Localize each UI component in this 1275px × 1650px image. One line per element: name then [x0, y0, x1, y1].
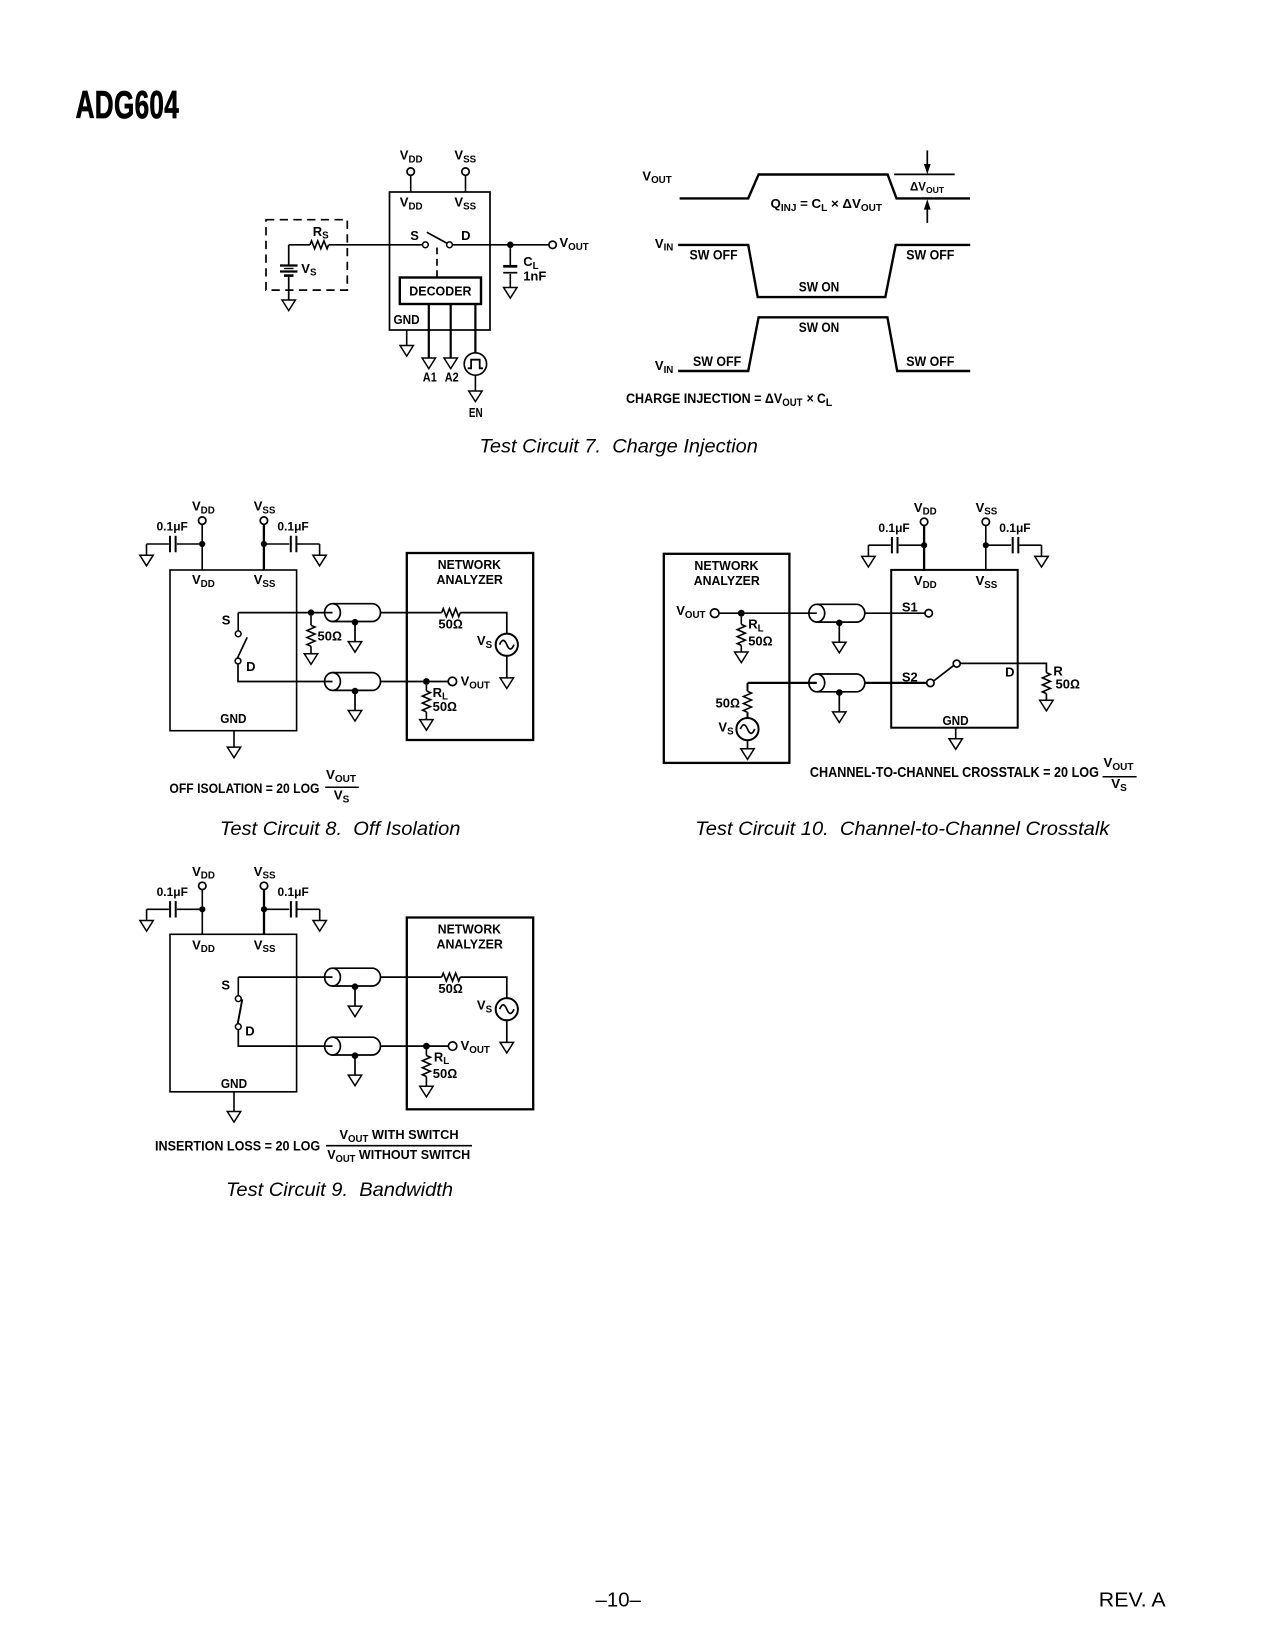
svg-text:S: S — [222, 613, 231, 628]
svg-text:A2: A2 — [445, 369, 459, 384]
svg-text:ANALYZER: ANALYZER — [694, 574, 760, 588]
svg-text:ΔVOUT: ΔVOUT — [910, 181, 945, 195]
svg-text:NETWORK: NETWORK — [694, 559, 758, 573]
svg-text:50Ω: 50Ω — [1056, 677, 1080, 692]
svg-text:SW OFF: SW OFF — [906, 248, 954, 263]
svg-text:NETWORK: NETWORK — [438, 558, 501, 572]
svg-text:VOUT WITH SWITCH: VOUT WITH SWITCH — [340, 1127, 459, 1145]
svg-text:VOUT: VOUT — [676, 603, 705, 621]
svg-text:VIN: VIN — [655, 236, 673, 254]
svg-text:VOUT WITHOUT SWITCH: VOUT WITHOUT SWITCH — [327, 1147, 470, 1165]
svg-text:× C: × C — [807, 391, 826, 407]
svg-text:L: L — [826, 397, 833, 409]
svg-text:RS: RS — [313, 224, 329, 242]
svg-text:S: S — [410, 228, 419, 243]
svg-text:INSERTION LOSS = 20 LOG: INSERTION LOSS = 20 LOG — [155, 1138, 320, 1154]
svg-text:VS: VS — [718, 720, 734, 738]
svg-text:ADG604: ADG604 — [76, 83, 180, 126]
svg-text:NETWORK: NETWORK — [438, 923, 501, 937]
svg-text:ANALYZER: ANALYZER — [437, 938, 503, 952]
svg-text:EN: EN — [469, 405, 483, 420]
svg-text:GND: GND — [394, 312, 420, 327]
svg-text:VOUT: VOUT — [642, 168, 671, 186]
svg-text:Test Circuit 9. Bandwidth: Test Circuit 9. Bandwidth — [226, 1179, 453, 1201]
svg-text:D: D — [461, 228, 470, 243]
svg-text:VOUT: VOUT — [326, 767, 356, 785]
svg-text:Test Circuit 8. Off Isolation: Test Circuit 8. Off Isolation — [220, 818, 461, 840]
svg-text:ANALYZER: ANALYZER — [437, 573, 503, 587]
svg-text:VS: VS — [301, 261, 317, 279]
svg-text:50Ω: 50Ω — [318, 629, 342, 644]
svg-text:GND: GND — [943, 713, 969, 728]
svg-text:VDD: VDD — [400, 195, 423, 213]
svg-text:CHARGE INJECTION = ΔV: CHARGE INJECTION = ΔV — [626, 391, 783, 407]
svg-text:S: S — [221, 978, 230, 993]
svg-text:VDD: VDD — [400, 148, 423, 166]
svg-text:50Ω: 50Ω — [438, 981, 462, 996]
svg-text:VS: VS — [334, 788, 350, 806]
svg-text:50Ω: 50Ω — [438, 617, 462, 632]
svg-text:SW OFF: SW OFF — [690, 248, 738, 263]
svg-text:VOUT: VOUT — [560, 235, 589, 253]
svg-text:REV. A: REV. A — [1099, 1590, 1166, 1612]
svg-text:RL: RL — [748, 617, 763, 635]
svg-text:VOUT: VOUT — [1104, 755, 1134, 773]
svg-text:VS: VS — [477, 633, 493, 651]
svg-text:D: D — [245, 1023, 254, 1038]
svg-text:S2: S2 — [902, 670, 918, 685]
svg-text:VOUT: VOUT — [461, 674, 490, 692]
svg-text:D: D — [246, 659, 255, 674]
svg-text:1nF: 1nF — [523, 269, 546, 284]
svg-text:S1: S1 — [902, 600, 918, 615]
svg-text:OFF ISOLATION = 20 LOG: OFF ISOLATION = 20 LOG — [169, 781, 319, 797]
svg-text:Test Circuit 7. Charge Inject: Test Circuit 7. Charge Injection — [480, 435, 758, 457]
svg-text:DECODER: DECODER — [409, 283, 472, 298]
svg-text:50Ω: 50Ω — [433, 1066, 457, 1081]
svg-text:GND: GND — [220, 711, 246, 726]
svg-text:D: D — [1005, 665, 1014, 680]
svg-text:VIN: VIN — [655, 358, 673, 376]
svg-text:Test Circuit 10. Channel-to-C: Test Circuit 10. Channel-to-Channel Cros… — [695, 818, 1110, 840]
svg-text:SW OFF: SW OFF — [693, 354, 741, 369]
svg-text:OUT: OUT — [782, 397, 803, 409]
svg-text:VOUT: VOUT — [461, 1038, 490, 1056]
svg-text:CHANNEL-TO-CHANNEL CROSSTALK =: CHANNEL-TO-CHANNEL CROSSTALK = 20 LOG — [810, 765, 1099, 781]
svg-text:–10–: –10– — [596, 1590, 642, 1612]
svg-text:VSS: VSS — [454, 195, 476, 213]
svg-text:50Ω: 50Ω — [748, 633, 772, 648]
svg-text:VS: VS — [477, 998, 493, 1016]
svg-text:RL: RL — [434, 1049, 449, 1067]
svg-text:A1: A1 — [423, 369, 437, 384]
svg-text:QINJ = CL × ΔVOUT: QINJ = CL × ΔVOUT — [771, 196, 882, 214]
svg-text:GND: GND — [221, 1076, 247, 1091]
svg-text:SW OFF: SW OFF — [906, 354, 954, 369]
svg-text:VS: VS — [1111, 776, 1127, 794]
svg-text:50Ω: 50Ω — [433, 699, 457, 714]
svg-text:50Ω: 50Ω — [716, 695, 740, 710]
svg-text:SW ON: SW ON — [799, 280, 840, 295]
svg-text:SW ON: SW ON — [799, 320, 840, 335]
svg-text:VSS: VSS — [454, 148, 476, 166]
